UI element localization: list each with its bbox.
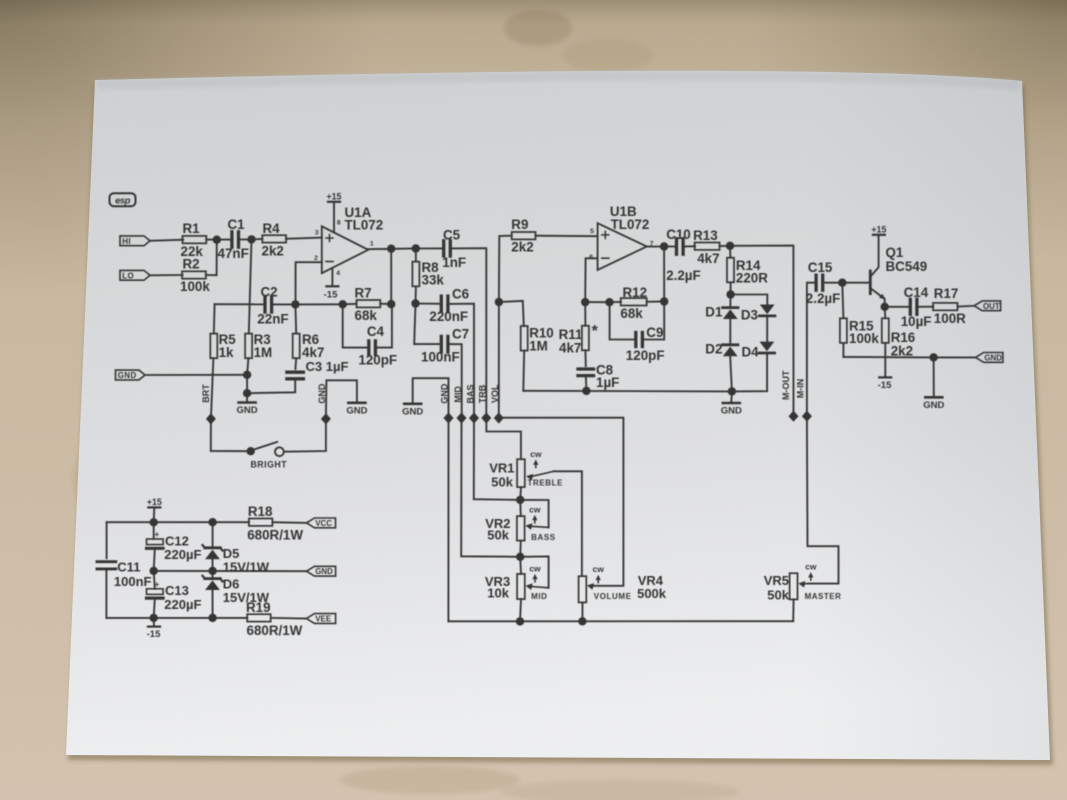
- capacitor C3 1uF: [294, 358, 297, 369]
- node TRB port: [481, 412, 491, 423]
- svg-text:HI: HI: [122, 237, 131, 246]
- wire pin2 node to R7: [295, 303, 342, 305]
- potentiometer VR3 10k MID: [519, 557, 522, 574]
- svg-text:R7: R7: [355, 285, 372, 300]
- svg-text:BRIGHT: BRIGHT: [250, 460, 287, 470]
- wire VR4 bottom: [581, 602, 583, 621]
- resistor R1: [183, 236, 207, 243]
- svg-text:C10: C10: [666, 227, 691, 242]
- svg-text:1nF: 1nF: [442, 255, 466, 270]
- wire to M-OUT line: [730, 246, 794, 417]
- wire GND input to R3 bottom node: [145, 374, 247, 376]
- Q1 emitter with arrow: [871, 289, 885, 299]
- svg-text:+: +: [154, 530, 159, 539]
- svg-text:D4: D4: [742, 344, 760, 359]
- svg-text:C7: C7: [452, 326, 469, 341]
- ground row from R10/C8 to diodes: [523, 390, 732, 393]
- zener diode D6 15V/1W: [212, 571, 214, 578]
- svg-text:R1: R1: [183, 221, 201, 236]
- wire C2 row from R5 corner: [215, 303, 265, 305]
- svg-text:C9: C9: [646, 325, 663, 340]
- svg-text:R2: R2: [183, 257, 200, 272]
- junction R13/R14/M-OUT: [726, 242, 734, 250]
- wire to Q1 base: [842, 282, 869, 284]
- connector VCC: [307, 518, 336, 528]
- svg-text:2.2µF: 2.2µF: [806, 291, 841, 306]
- svg-text:MID: MID: [453, 386, 463, 403]
- svg-text:2k2: 2k2: [511, 240, 533, 255]
- svg-text:680R/1W: 680R/1W: [247, 527, 303, 542]
- svg-text:C15: C15: [808, 260, 833, 275]
- switch pole: [247, 447, 255, 455]
- svg-text:GND: GND: [346, 405, 367, 416]
- resistor R15 100k: [840, 318, 847, 343]
- resistor R6 4k7: [293, 334, 300, 359]
- ground for bus: [404, 402, 421, 405]
- junction D6 bottom: [208, 614, 216, 622]
- wire C3 to ground node: [247, 379, 295, 393]
- wire U1B pin7 out: [647, 246, 664, 248]
- wire MID port to VR2/VR3 junction: [461, 418, 520, 557]
- ESP logo: [110, 193, 136, 206]
- wire feedback up to output: [390, 249, 392, 304]
- resistor R3 1M: [245, 334, 252, 359]
- svg-text:R12: R12: [623, 285, 648, 300]
- junction R1/R2/C1/R5: [213, 236, 221, 244]
- svg-text:4k7: 4k7: [559, 340, 581, 355]
- svg-text:2k2: 2k2: [262, 244, 284, 259]
- diode D4: [766, 316, 768, 342]
- capacitor C11 100nF: [106, 522, 108, 558]
- wire down: [246, 375, 248, 393]
- bottom ground row: [448, 620, 793, 622]
- power -15 rail: [153, 618, 155, 626]
- svg-text:BRT: BRT: [201, 384, 211, 403]
- wire R9 to U1B pin5: [535, 235, 597, 238]
- svg-text:1M: 1M: [529, 339, 548, 354]
- svg-text:BC549: BC549: [886, 259, 928, 274]
- wire VR1 wiper to VR4 top: [554, 471, 582, 576]
- resistor R19 680R/1W: [247, 614, 271, 621]
- svg-text:+: +: [154, 580, 159, 589]
- svg-text:C14: C14: [904, 285, 929, 300]
- junction VR2/VR3/MID: [516, 553, 524, 561]
- svg-text:GND: GND: [923, 400, 944, 411]
- svg-text:3: 3: [315, 229, 319, 236]
- wire C5 to TRB line: [450, 248, 486, 418]
- junction Q1 emitter/C14/R16: [881, 303, 889, 311]
- wire Q1 collector to +15: [871, 236, 879, 276]
- VEE row: [106, 617, 247, 619]
- connector GND input: [116, 370, 146, 380]
- node M-IN port: [802, 411, 812, 422]
- svg-text:GND: GND: [317, 383, 327, 404]
- wire HI to R1: [150, 240, 183, 241]
- wire VR2 wiper loop: [520, 500, 548, 528]
- wire R9 left down VOL line: [499, 236, 512, 302]
- junction R7/C4 right: [387, 300, 395, 308]
- resistor R4: [262, 235, 286, 242]
- svg-text:220nF: 220nF: [429, 309, 468, 324]
- ground under diodes: [723, 402, 740, 405]
- svg-text:4k7: 4k7: [697, 251, 719, 266]
- svg-text:GND: GND: [237, 405, 258, 416]
- capacitor C12 220uF: [153, 522, 155, 539]
- svg-text:100R: 100R: [934, 311, 966, 326]
- resistor R14 220R: [727, 258, 734, 283]
- wire U1A output: [368, 248, 416, 251]
- wire output down to R12: [663, 247, 665, 302]
- svg-text:R9: R9: [511, 217, 528, 232]
- node BAS port: [469, 412, 479, 423]
- svg-text:BASS: BASS: [531, 533, 556, 542]
- wire to ground: [246, 393, 248, 401]
- svg-text:100k: 100k: [180, 279, 210, 294]
- svg-text:R17: R17: [934, 286, 959, 301]
- wire VR3 wiper loop: [520, 556, 548, 587]
- wire R5 down to BRT port: [211, 358, 214, 419]
- node M-OUT port: [789, 411, 799, 422]
- op-amp U1B TL072: [598, 223, 647, 270]
- ground under output: [925, 396, 942, 399]
- svg-text:TL072: TL072: [611, 217, 650, 232]
- wire D2 to ground node: [730, 356, 732, 391]
- zener diode D5 15V/1W: [212, 522, 214, 547]
- wire R10 to bottom row: [522, 351, 525, 391]
- potentiometer VR2 50k BASS: [519, 500, 522, 516]
- svg-text:1M: 1M: [254, 345, 273, 360]
- svg-text:C6: C6: [452, 287, 469, 302]
- svg-text:68k: 68k: [355, 308, 378, 323]
- capacitor C6 220nF: [416, 303, 442, 305]
- svg-text:LO: LO: [122, 271, 134, 280]
- svg-text:esp: esp: [115, 196, 131, 207]
- wire D4 down to ground node: [732, 353, 767, 391]
- capacitor C7 100nF: [414, 304, 441, 345]
- wire M-IN up to C15: [807, 283, 816, 417]
- paper sheet: [66, 71, 1050, 760]
- svg-text:VR5: VR5: [764, 573, 789, 588]
- junction C12/C13: [150, 567, 158, 575]
- svg-text:-15: -15: [324, 290, 338, 301]
- node MID port: [457, 412, 467, 423]
- resistor R18 680R/1W: [249, 519, 273, 526]
- wire up to U1A pin2: [296, 262, 322, 304]
- resistor R13 4k7: [695, 243, 720, 250]
- wire VR3 bottom: [520, 599, 521, 621]
- svg-text:VR1: VR1: [489, 460, 514, 475]
- capacitor C9 120pF: [610, 302, 636, 339]
- diode D2: [729, 319, 731, 344]
- capacitor C8 1uF: [584, 350, 586, 366]
- wire VOL port to VR4 wiper: [498, 417, 500, 419]
- resistor R10 1M: [499, 301, 524, 326]
- svg-text:BAS: BAS: [465, 384, 475, 403]
- svg-text:TL072: TL072: [345, 218, 384, 233]
- svg-text:OUT: OUT: [983, 302, 1000, 311]
- wire to D3: [731, 295, 768, 305]
- connector VEE: [307, 614, 336, 624]
- junction R7/C4 left: [339, 300, 347, 308]
- connector OUT: [974, 301, 1000, 311]
- svg-text:1k: 1k: [219, 345, 234, 360]
- wire C1/R4 node down to R3: [249, 239, 252, 333]
- svg-text:2.2µF: 2.2µF: [666, 268, 701, 283]
- capacitor C14 10uF: [885, 306, 911, 308]
- resistor R9 2k2: [512, 232, 536, 239]
- wire VR5 bottom to row: [792, 599, 794, 621]
- capacitor C13 220uF: [154, 571, 155, 589]
- svg-text:C5: C5: [443, 228, 461, 243]
- svg-text:-15: -15: [147, 629, 161, 640]
- svg-text:C12: C12: [165, 533, 189, 548]
- wire VR1 bottom: [519, 487, 522, 500]
- svg-text:cw: cw: [530, 449, 542, 459]
- svg-text:500k: 500k: [637, 586, 667, 601]
- junction output/feedback: [387, 245, 395, 253]
- svg-text:100nF: 100nF: [114, 574, 152, 589]
- svg-text:+15: +15: [327, 192, 342, 202]
- wire C7 to MID line: [448, 344, 462, 418]
- svg-text:MASTER: MASTER: [805, 592, 842, 601]
- ground under R3: [239, 401, 256, 404]
- svg-text:50k: 50k: [767, 587, 789, 602]
- capacitor C2 22nF: [263, 297, 266, 313]
- resistor R17 100R: [933, 303, 958, 310]
- wire VOL line down to port: [498, 302, 500, 418]
- svg-text:C1: C1: [228, 217, 246, 232]
- svg-text:GND: GND: [984, 353, 1002, 362]
- junction VR3 bottom row: [516, 617, 524, 625]
- svg-text:2k2: 2k2: [891, 343, 913, 358]
- wire TRB port to VR1: [486, 418, 521, 459]
- svg-text:GND: GND: [315, 567, 333, 576]
- node GND port: [444, 412, 454, 423]
- junction C8/ground row: [582, 387, 590, 395]
- op-amp U1A TL072: [322, 226, 368, 273]
- GND bus jog to ground symbol: [413, 378, 449, 418]
- svg-text:1µF: 1µF: [596, 375, 619, 390]
- wire jog to ground: [326, 380, 357, 419]
- svg-text:47nF: 47nF: [218, 246, 249, 261]
- GND row: [154, 570, 307, 572]
- wire VR2 bottom: [519, 541, 522, 557]
- wire R2 up to junction: [206, 240, 217, 276]
- VCC row: [107, 521, 249, 523]
- connector GND power: [307, 566, 336, 576]
- svg-text:680R/1W: 680R/1W: [247, 623, 303, 638]
- svg-text:15V/1W: 15V/1W: [223, 560, 270, 575]
- svg-text:10k: 10k: [487, 586, 509, 601]
- svg-text:R13: R13: [693, 228, 718, 243]
- svg-text:M-OUT: M-OUT: [781, 370, 791, 400]
- junction C2/pin2/R6: [291, 300, 299, 308]
- resistor R7 68k: [357, 300, 381, 307]
- svg-text:VEE: VEE: [315, 615, 331, 624]
- svg-text:100nF: 100nF: [421, 350, 460, 365]
- capacitor C15 2.2uF: [814, 275, 817, 290]
- svg-text:D5: D5: [223, 546, 240, 561]
- junction C13 bottom: [150, 614, 158, 622]
- junction pin6/R11/R12: [581, 298, 589, 306]
- wire C6 to BAS line: [448, 304, 474, 418]
- svg-text:*: *: [592, 323, 599, 340]
- junction R12/C9 left: [605, 298, 613, 306]
- wire R16 down to -15: [884, 343, 886, 377]
- potentiometer VR4 500k VOLUME: [579, 576, 587, 602]
- resistor R5 1k: [210, 334, 217, 359]
- resistor R11 4k7: [582, 326, 589, 351]
- capacitor C1 47nF: [217, 239, 232, 241]
- svg-text:5: 5: [590, 228, 594, 235]
- diode D1: [729, 295, 731, 307]
- svg-text:C2: C2: [261, 284, 278, 299]
- resistor R8 33k: [412, 262, 419, 287]
- svg-text:GND: GND: [118, 371, 137, 380]
- svg-text:-15: -15: [878, 380, 892, 391]
- emitter ground row: [843, 356, 933, 359]
- node VOL port: [494, 412, 504, 423]
- node GND port at switch: [321, 413, 331, 424]
- wire BAS port to VR1/VR2 junction: [474, 418, 520, 500]
- svg-text:VCC: VCC: [315, 519, 332, 528]
- svg-text:M-IN: M-IN: [796, 379, 806, 399]
- wire GND port down to bottom row: [447, 418, 449, 621]
- wire R1 to node: [206, 239, 217, 241]
- svg-text:4: 4: [336, 270, 340, 277]
- transistor Q1 BC549: [869, 271, 872, 294]
- svg-text:100k: 100k: [849, 331, 879, 346]
- svg-text:VOLUME: VOLUME: [594, 592, 632, 601]
- svg-text:R4: R4: [263, 221, 281, 236]
- svg-text:33k: 33k: [422, 273, 445, 288]
- junction gnd row: [929, 353, 937, 361]
- switch BRIGHT: [211, 419, 248, 451]
- svg-text:D2: D2: [705, 341, 722, 356]
- svg-text:GND: GND: [721, 406, 742, 417]
- junction C15/R15/Q1 base: [838, 279, 846, 287]
- junction +15/C12: [150, 518, 158, 526]
- capacitor C5 1nF: [416, 247, 444, 249]
- junction output/R8/C5: [412, 244, 420, 252]
- capacitor C10 2.2uF: [664, 245, 676, 247]
- svg-text:cw: cw: [805, 562, 817, 572]
- connector GND output: [976, 353, 1003, 363]
- junction R14/D1/D3: [726, 290, 734, 298]
- junction VR1/VR2/BAS: [516, 496, 524, 504]
- svg-text:D1: D1: [705, 304, 723, 319]
- svg-text:4k7: 4k7: [302, 345, 324, 360]
- resistor R16 2k2: [882, 318, 889, 343]
- svg-text:120pF: 120pF: [626, 348, 665, 363]
- svg-text:50k: 50k: [491, 474, 513, 489]
- capacitor C4 120pF: [343, 304, 369, 347]
- junction R8/C6/C7: [411, 299, 419, 307]
- svg-text:R19: R19: [246, 600, 271, 615]
- wire R4 to U1A pin3: [286, 238, 322, 239]
- svg-text:1: 1: [370, 240, 374, 247]
- node BRT port: [206, 413, 216, 424]
- svg-text:50k: 50k: [487, 528, 509, 543]
- wire M-IN to VR5 wiper: [807, 416, 839, 583]
- svg-text:C11: C11: [117, 560, 140, 575]
- junction output/feedback U1B: [660, 242, 668, 250]
- svg-text:8: 8: [337, 219, 341, 226]
- svg-text:C3 1µF: C3 1µF: [306, 359, 349, 374]
- svg-text:cw: cw: [529, 504, 541, 514]
- wire switch to GND port: [284, 419, 326, 452]
- connector LO input: [120, 270, 150, 280]
- paper drop shadow: [68, 75, 1053, 765]
- U1A -15 supply pin 4: [331, 268, 333, 286]
- junction D5/D6: [208, 567, 216, 575]
- svg-text:D3: D3: [741, 307, 758, 322]
- diode D3: [760, 305, 775, 315]
- svg-text:+15: +15: [871, 225, 886, 235]
- svg-text:Q1: Q1: [886, 245, 904, 260]
- junction VOL/R10: [495, 298, 503, 306]
- svg-text:68k: 68k: [620, 306, 643, 321]
- wire R3 to GND row: [247, 358, 248, 375]
- potentiometer VR5 50k MASTER: [790, 573, 798, 599]
- svg-text:+15: +15: [147, 497, 162, 507]
- svg-text:10µF: 10µF: [901, 314, 932, 329]
- svg-text:2: 2: [314, 255, 318, 262]
- svg-text:220µF: 220µF: [164, 547, 201, 562]
- ground for bright switch: [348, 401, 365, 404]
- junction R3/GND-input: [243, 371, 251, 379]
- svg-text:cw: cw: [593, 564, 605, 574]
- svg-text:C13: C13: [165, 583, 189, 598]
- switch lever: [253, 442, 278, 450]
- svg-text:22nF: 22nF: [257, 312, 288, 327]
- svg-text:TRB: TRB: [478, 384, 488, 403]
- junction VR4 bottom row: [578, 617, 586, 625]
- wire R15 to gnd row: [842, 343, 844, 357]
- resistor R2: [182, 271, 206, 278]
- wire U1B pin6 down: [585, 258, 597, 302]
- junction D5 top: [208, 518, 216, 526]
- svg-text:MID: MID: [531, 592, 547, 601]
- svg-text:GND: GND: [402, 406, 423, 417]
- svg-text:220R: 220R: [736, 270, 768, 285]
- resistor R12 68k: [585, 301, 609, 303]
- junction C1/R4/R3: [247, 235, 255, 243]
- svg-text:120pF: 120pF: [358, 353, 397, 368]
- svg-text:C4: C4: [367, 324, 385, 339]
- connector HI input: [120, 236, 150, 246]
- potentiometer VR1 50k TREBLE: [517, 459, 525, 487]
- wire LO to R2: [150, 274, 183, 276]
- junction R12/C9 right: [660, 297, 668, 305]
- svg-text:220µF: 220µF: [164, 597, 201, 612]
- svg-text:R18: R18: [248, 504, 273, 519]
- junction diodes ground: [728, 387, 736, 395]
- svg-text:cw: cw: [529, 563, 541, 573]
- svg-text:TREBLE: TREBLE: [528, 478, 564, 487]
- junction C3 return: [243, 389, 251, 397]
